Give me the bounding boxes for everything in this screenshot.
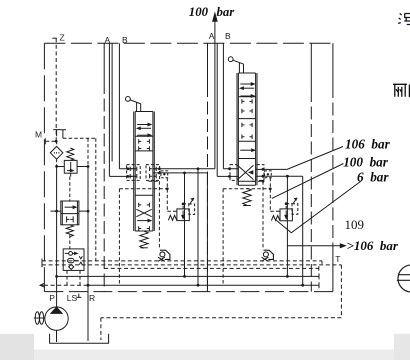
svg-text:109: 109 xyxy=(345,217,365,232)
svg-text:B: B xyxy=(225,31,231,41)
svg-text:100: 100 xyxy=(189,5,209,19)
svg-text:Z: Z xyxy=(60,33,65,43)
wire LS drain dashed 2 xyxy=(66,270,68,285)
valve V2 port check box right xyxy=(257,165,264,181)
svg-text:106 bar: 106 bar xyxy=(345,136,391,151)
tick left 1 xyxy=(41,259,43,264)
valve V2 port check box left xyxy=(230,165,237,181)
relief valve U5 pilot xyxy=(285,204,287,209)
valve V1 bottom arrow xyxy=(137,220,149,222)
wire V2 right port upper + leader 106bar xyxy=(256,147,343,170)
spring of reducing valve xyxy=(67,148,74,160)
pilot tap box V2 xyxy=(265,171,272,178)
filter dots xyxy=(54,152,59,154)
compensator through line xyxy=(51,210,89,212)
svg-text:B: B xyxy=(122,35,128,45)
wire T2 drain dashed xyxy=(63,137,96,139)
valve V1 bottom plug xyxy=(139,226,150,230)
pilot dashed V1 chain xyxy=(149,180,160,182)
leader >106bar xyxy=(287,245,341,247)
wire dashed drop x95.8 xyxy=(95,138,97,261)
valve V2 spring xyxy=(243,188,251,205)
valve V2 arrow chamber1 xyxy=(240,83,252,85)
wire LS drain dashed xyxy=(79,270,81,285)
svg-text:6 bar: 6 bar xyxy=(357,170,389,185)
arrow tick left xyxy=(40,283,45,287)
pilot dashed V2 chain xyxy=(252,180,263,182)
section symbol clipped circle xyxy=(397,265,410,292)
section divider 1 xyxy=(103,43,105,81)
wire pipe P riser V2 xyxy=(214,19,216,169)
wire pilot drop dashed V2 xyxy=(222,189,224,285)
relief valve U4 box xyxy=(177,209,189,221)
LS selector orifice xyxy=(69,252,73,256)
wire compensator to LS box xyxy=(69,235,71,249)
T riser xyxy=(332,244,334,292)
pilot tap box V1 xyxy=(161,171,168,178)
wire P riser / pump line xyxy=(56,166,58,307)
leader 6bar xyxy=(276,182,360,233)
valve V2 body walls xyxy=(237,73,257,185)
LS gallery dashed 1 xyxy=(42,260,322,262)
valve V2 blocked ports rows b xyxy=(242,123,252,127)
svg-text:bar: bar xyxy=(217,5,236,19)
valve V1 blocked ports row3 xyxy=(139,203,150,207)
filter F1 xyxy=(50,146,63,159)
elbow gallery1 down xyxy=(321,261,323,265)
P gallery end tick xyxy=(318,273,320,279)
check symbols left box xyxy=(130,167,137,171)
wire pipe B right valve xyxy=(223,43,238,169)
pump to tank xyxy=(56,330,58,342)
plugged port T2 xyxy=(60,130,66,138)
check symbols right box xyxy=(150,167,157,171)
svg-text:M: M xyxy=(35,129,42,139)
pump shaft xyxy=(34,317,45,319)
enclosure right edge xyxy=(332,43,334,85)
valve V1 port check box right xyxy=(146,165,160,181)
wire pipe B left valve xyxy=(119,43,135,169)
port M tick xyxy=(44,138,46,144)
relief valve U5 spring xyxy=(271,216,280,221)
valve V2 arrow chamber2 left xyxy=(244,87,255,89)
svg-text:>106 bar: >106 bar xyxy=(347,238,399,253)
drain rect dashed right edge xyxy=(340,265,342,318)
LS plug mark xyxy=(76,294,81,298)
valve V1 body walls xyxy=(134,112,155,232)
valve V2 lever xyxy=(228,57,233,62)
LS gallery dashed 3 xyxy=(104,267,319,269)
wire relief drain V2 xyxy=(286,176,288,276)
enclosure left edge xyxy=(43,43,45,291)
tick left 2 xyxy=(41,263,43,268)
wire pilot drop dashed V1 xyxy=(118,189,120,285)
svg-text:T: T xyxy=(335,254,340,264)
wire V1 right port upper xyxy=(153,169,215,285)
wire R riser xyxy=(87,167,89,342)
relief valve U4 pilot xyxy=(182,204,184,209)
LS selector box U3 xyxy=(63,249,84,271)
grey bottom strip xyxy=(0,350,410,360)
svg-text:A: A xyxy=(105,35,111,45)
wire V1 right port lower xyxy=(153,173,208,292)
T gallery end tick xyxy=(318,282,320,288)
valve V2 cross port chamber xyxy=(238,165,254,179)
valve V2 blocked ports rows a xyxy=(242,99,252,103)
svg-text:R: R xyxy=(89,293,95,303)
section divider 2 xyxy=(207,43,209,84)
P gallery solid xyxy=(57,275,319,277)
junction dots xyxy=(55,140,58,143)
tick right 3 xyxy=(318,266,320,271)
pressure reducing valve U2 xyxy=(64,160,77,173)
LS selector side arrows xyxy=(79,256,82,265)
svg-text:P: P xyxy=(49,293,55,303)
LS gallery dashed 2 xyxy=(42,264,341,266)
svg-text:100 bar: 100 bar xyxy=(343,155,389,170)
grey block bottom-left xyxy=(0,334,34,360)
LS selector shuttle diamond xyxy=(69,264,74,269)
wire M to Z node xyxy=(46,140,56,142)
relief valve U4 internal xyxy=(182,211,184,216)
relief valve U5 box xyxy=(280,209,292,221)
valve V1 port check box left xyxy=(127,165,141,181)
enclosure bottom edge xyxy=(44,291,333,293)
valve V2 arrow chamber5 xyxy=(240,149,252,151)
pump P1 xyxy=(45,307,68,330)
valve V1 lever xyxy=(126,97,131,102)
valve V1 cross chamber xyxy=(136,209,151,216)
wire filter to node xyxy=(56,141,58,146)
wire relief drain V1 xyxy=(184,173,186,277)
drain rect dashed left drop xyxy=(100,318,102,340)
relief valve U4 spring xyxy=(168,215,177,220)
reducing valve arrow xyxy=(67,170,73,172)
100bar arrow head xyxy=(213,13,217,21)
wire pipe mid left valve xyxy=(111,43,113,161)
leader 100bar xyxy=(272,164,344,199)
CJK char 2 (clipped) xyxy=(393,84,409,97)
wire dashed drop x88 xyxy=(87,138,89,166)
valve V2 arrow chamber2 right xyxy=(240,95,252,97)
valve V1 arrow chamber2 right xyxy=(137,134,149,136)
svg-text:A: A xyxy=(209,31,215,41)
check valve CV2 xyxy=(264,250,274,259)
relief valve U5 internal xyxy=(285,211,287,216)
plugged port T1 xyxy=(53,130,60,137)
valve V1 dividers xyxy=(135,112,153,232)
port Z tick xyxy=(52,37,57,39)
wire pipe A left valve xyxy=(109,43,135,176)
CJK char 1 (clipped) xyxy=(398,14,410,25)
T gallery dashed left part xyxy=(44,284,88,286)
drain rect dashed bottom xyxy=(101,317,342,319)
wire through reducing valve xyxy=(57,166,88,168)
valve V1 blocked ports row1 xyxy=(139,139,150,143)
LS selector middle element xyxy=(68,258,74,262)
valve V1 arrow chamber1 xyxy=(137,124,149,126)
check valve CV1 xyxy=(160,250,170,259)
valve V1 blocked ports row2 xyxy=(139,146,150,150)
wire pipe A right valve xyxy=(217,43,238,176)
compensator spring xyxy=(66,225,73,237)
wire reducing valve drain xyxy=(70,173,72,176)
wire Z pilot line xyxy=(55,38,57,141)
enclosure top edge xyxy=(44,42,332,44)
section divider 3 xyxy=(310,43,312,89)
T gallery solid xyxy=(88,284,319,286)
compensator valve U6 xyxy=(61,201,79,225)
valve V2 dividers xyxy=(238,73,255,185)
grey block bottom-right xyxy=(394,334,410,360)
valve V1 spring xyxy=(140,231,148,248)
svg-text:LS: LS xyxy=(67,293,78,303)
tank T1 xyxy=(50,334,109,343)
wire V2 right port lower xyxy=(256,176,303,285)
valve V1 arrow chamber2 left xyxy=(140,127,151,129)
